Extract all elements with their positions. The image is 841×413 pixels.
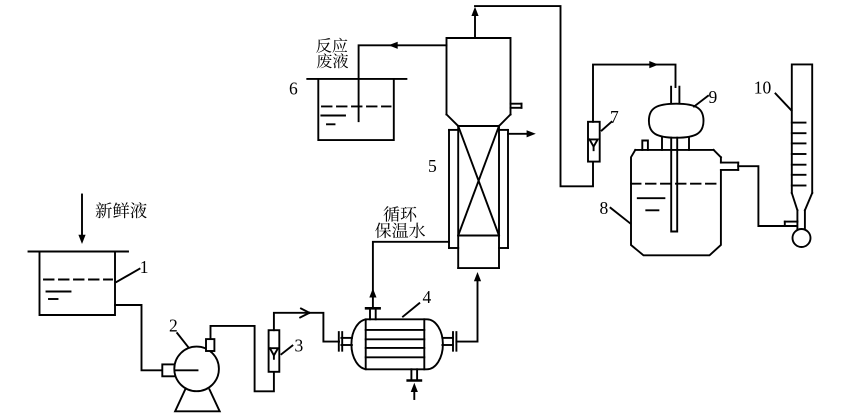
heat-exchanger 4 shell: [351, 319, 443, 369]
flask 9 dip tube: [671, 138, 677, 232]
burette 10 side fitting: [785, 222, 798, 226]
tank 6 liquid mark b: [327, 123, 335, 125]
arrow jacket outlet: [508, 130, 536, 137]
label 循环保温水: [375, 206, 425, 238]
leader line 7: [602, 122, 612, 131]
tank 6 lip: [307, 78, 406, 80]
leader line 10: [776, 94, 792, 111]
arrow on wire to flask 9: [649, 61, 658, 68]
pump 2 base: [175, 390, 220, 412]
arrow on waste line: [389, 42, 398, 49]
svg-text:3: 3: [295, 336, 304, 356]
column 5 packing X: [458, 126, 499, 236]
svg-text:9: 9: [709, 87, 718, 107]
arrow into column 5 bottom: [474, 272, 481, 281]
arrow up on water line: [369, 288, 376, 297]
vessel 8 lid: [635, 150, 721, 163]
flask 9 neck: [671, 87, 679, 104]
heat-exchanger 4 top nozzle: [366, 308, 380, 319]
wire tank1-pump: [115, 305, 163, 370]
tank 1 liquid mark a: [47, 291, 71, 293]
pump 2 outlet flange: [206, 339, 214, 351]
pump 2 shaft line: [176, 369, 198, 371]
burette 10 leveling ball: [793, 229, 811, 247]
leader line 2: [177, 333, 188, 347]
tank 6 liquid mark a: [321, 115, 345, 117]
burette 10 taper: [792, 193, 812, 210]
leader line 8: [611, 208, 631, 224]
heat-exchanger 4 left nozzle: [339, 332, 352, 351]
column 5 side stub: [511, 104, 522, 108]
rotameter 7 body: [588, 122, 600, 162]
wire HE4-column5: [456, 281, 477, 342]
pump 2 casing: [174, 347, 219, 392]
column 5 inner tube: [458, 126, 499, 268]
burette 10 outlet tube: [797, 210, 805, 229]
flow arrow (open) on wire: [300, 309, 309, 318]
leader line 1: [117, 269, 140, 282]
svg-text:8: 8: [600, 198, 609, 218]
vessel 8 liquid level (dashed): [631, 183, 721, 185]
column 5 taper: [447, 114, 511, 126]
tank 1 body: [40, 252, 116, 316]
svg-text:6: 6: [289, 79, 298, 99]
arrow column 5 overhead: [471, 7, 478, 38]
vessel 8 body: [631, 150, 721, 255]
vessel 8 liquid mark b: [646, 209, 658, 211]
burette 10 tube: [792, 64, 812, 193]
leader line 9: [694, 96, 708, 107]
label 新鲜液 (fresh liquid): [96, 202, 147, 218]
svg-text:10: 10: [754, 78, 772, 98]
heat-exchanger 4 tube sheet left: [365, 319, 367, 369]
arrow fresh-feed inlet: [78, 195, 85, 245]
heat-exchanger 4 bottom nozzle: [408, 369, 421, 380]
svg-text:1: 1: [140, 257, 149, 277]
tank 1 lip: [29, 251, 129, 253]
wire column5-tank6 (waste): [359, 45, 447, 121]
column 5 top section: [447, 38, 511, 114]
tank 1 liquid level (dashed): [44, 279, 112, 281]
svg-text:7: 7: [610, 107, 619, 127]
rotameter 3 float: [270, 348, 278, 359]
wire rotameter3-HE4: [274, 313, 339, 342]
leader line 4: [403, 303, 419, 316]
heat-exchanger 4 tube sheet right: [423, 319, 425, 369]
tank 1 liquid mark b: [49, 298, 58, 300]
leader line 3: [281, 346, 292, 355]
vessel 8 lid stub: [642, 141, 648, 150]
burette 10 graduations: [792, 123, 806, 186]
pump 2 inlet flange: [162, 364, 175, 376]
heat-exchanger 4 right nozzle: [442, 332, 456, 351]
svg-text:5: 5: [428, 156, 437, 176]
svg-text:2: 2: [169, 316, 178, 336]
arrow into HE4 bottom: [411, 383, 418, 399]
wire rotameter7-flask9: [593, 65, 676, 122]
column 5 jacket: [449, 130, 508, 248]
svg-text:4: 4: [423, 287, 432, 307]
wire vessel8-burette10: [738, 166, 797, 226]
tank 6 body: [318, 79, 394, 140]
heat-exchanger 4 tubes: [366, 330, 425, 357]
wire HE4-jacket (circulating water): [373, 242, 449, 308]
wire overhead-rotameter7: [475, 6, 593, 186]
rotameter 7 float: [590, 139, 598, 150]
vessel 8 side port: [721, 163, 738, 170]
wire pump-rotameter3: [211, 326, 274, 391]
label 反应废液: [316, 38, 348, 69]
vessel 8 liquid mark a: [638, 197, 665, 199]
tank 6 liquid level (dashed): [322, 105, 391, 107]
flask 9 lower collar: [662, 138, 689, 150]
rotameter 3 body: [269, 330, 280, 372]
flask 9 bulb: [649, 104, 704, 138]
